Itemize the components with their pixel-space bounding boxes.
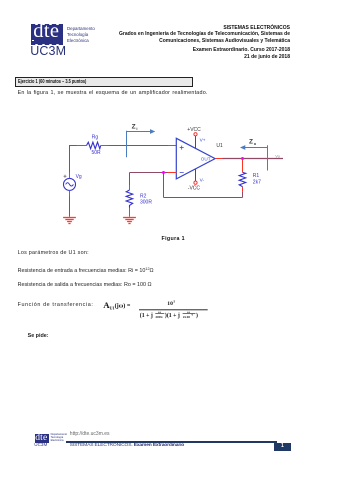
dte logo stamp box [31, 24, 63, 45]
wire: Rg left pin stub [78, 145, 87, 147]
svg-text:R2: R2 [140, 193, 147, 199]
resistor Rg [87, 142, 101, 149]
svg-text:OUT: OUT [201, 156, 211, 161]
wire: feedback to R1 bottom [242, 191, 244, 197]
paragraph [18, 90, 208, 96]
footer mini logo [35, 434, 49, 443]
op-amp + input mark [180, 146, 184, 150]
Figura 1 caption [162, 236, 185, 242]
svg-text:V+: V+ [200, 137, 206, 142]
plus mark of source [64, 175, 67, 178]
wire: top input from source to Rg [70, 146, 78, 173]
wire: - input net from R2 corner to op-amp [130, 172, 169, 174]
footer rule [66, 441, 277, 443]
Departamento Tecnologia Electronica [67, 26, 95, 45]
Se pide [28, 333, 49, 339]
wire: R2 bottom pin stub [129, 208, 131, 217]
formula A_U1 [103, 300, 207, 319]
wire: Rg right pin stub [101, 145, 109, 147]
wire: R2 branch down [129, 173, 131, 186]
V- pin [195, 169, 197, 181]
svg-text:300R: 300R [140, 200, 152, 206]
svg-text:ω: ω [158, 310, 161, 314]
footer page number [274, 443, 291, 451]
svg-text:): ) [196, 312, 198, 319]
svg-text:Vg: Vg [76, 174, 82, 180]
wire: source bottom to ground [69, 197, 71, 217]
wire: op-amp - pin stub [168, 172, 176, 174]
node B (output junction) [241, 157, 244, 160]
svg-text:6: 6 [192, 314, 194, 317]
footer url [70, 431, 110, 437]
wire: R2 top pin stub [129, 185, 131, 190]
svg-text:U1: U1 [216, 143, 223, 149]
svg-text:-VCC: -VCC [188, 186, 201, 192]
svg-text:i: i [136, 126, 137, 131]
ground (R2) [123, 218, 136, 224]
svg-text:Rg: Rg [92, 134, 99, 140]
svg-text:Vo: Vo [275, 153, 280, 158]
svg-text:R1: R1 [253, 173, 260, 179]
footer title [70, 443, 184, 448]
Z_o measurement marker [245, 145, 268, 170]
ground (source) [63, 218, 76, 224]
svg-text:10: 10 [167, 301, 173, 307]
wire: Rg to op-amp [109, 145, 169, 147]
V+ pin [195, 136, 197, 149]
wire: op-amp output pin stub [215, 158, 222, 160]
resistor R2 [126, 190, 133, 208]
wire: output net [223, 158, 284, 160]
svg-text:+VCC: +VCC [187, 127, 201, 133]
wire: source top pin stub [69, 173, 71, 179]
svg-text:)(1 + j: )(1 + j [165, 312, 180, 319]
wire: feedback bottom horizontal [164, 197, 243, 199]
svg-text:50R: 50R [92, 150, 102, 156]
Ejercicio 1 box [15, 77, 193, 86]
op-amp U1 triangle [176, 138, 215, 179]
wire: source bottom pin stub [69, 190, 71, 196]
wire: feedback vertical [163, 173, 165, 198]
UC3M [30, 45, 66, 58]
svg-text:200π: 200π [155, 315, 162, 319]
wire: op-amp + pin stub [168, 145, 176, 147]
op-amp - input mark [180, 172, 184, 174]
svg-text:Z: Z [132, 123, 136, 130]
svg-text:V-: V- [200, 177, 205, 182]
svg-text:Z: Z [249, 138, 253, 145]
svg-text:2k7: 2k7 [253, 180, 261, 186]
Z_i measurement marker [127, 131, 151, 158]
svg-text:(1 + j: (1 + j [140, 312, 153, 319]
body text lines [18, 250, 89, 256]
source Vg [64, 178, 76, 190]
node A (inverting input junction) [162, 171, 165, 174]
wire: R1 bottom pin stub [242, 187, 244, 192]
svg-text:2π10: 2π10 [183, 315, 190, 319]
svg-text:5: 5 [173, 300, 175, 304]
svg-text:ω: ω [187, 310, 190, 314]
resistor R1 [239, 172, 246, 186]
svg-text:o: o [254, 141, 257, 146]
logo scallops [35, 23, 38, 25]
wire: R1 top pin stub [242, 159, 244, 173]
header right block [70, 25, 290, 44]
svg-text:(jω) =: (jω) = [115, 303, 131, 310]
